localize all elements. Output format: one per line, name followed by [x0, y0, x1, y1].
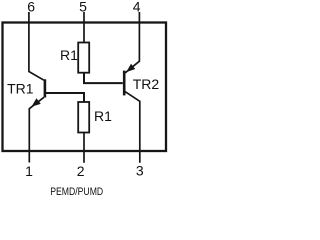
svg-text:TR1: TR1 — [7, 80, 34, 96]
svg-text:1: 1 — [25, 163, 33, 179]
svg-text:4: 4 — [133, 0, 141, 14]
svg-text:TR2: TR2 — [133, 76, 160, 92]
svg-text:6: 6 — [27, 0, 35, 14]
svg-text:PEMD/PUMD: PEMD/PUMD — [50, 186, 103, 198]
svg-text:R1: R1 — [94, 108, 112, 124]
svg-text:R1: R1 — [60, 47, 78, 63]
svg-text:2: 2 — [77, 163, 85, 179]
svg-text:5: 5 — [79, 0, 87, 14]
svg-text:3: 3 — [136, 163, 144, 179]
